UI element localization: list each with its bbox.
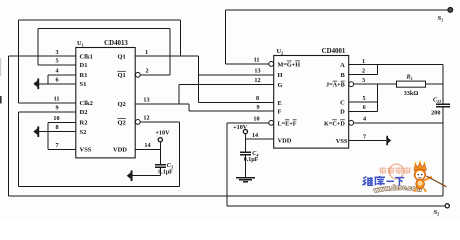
svg-text:12: 12 <box>143 115 149 122</box>
svg-text:J=A+B: J=A+B <box>326 82 345 89</box>
svg-text:4: 4 <box>55 67 58 74</box>
svg-text:G: G <box>278 82 283 89</box>
svg-text:S2: S2 <box>80 129 87 136</box>
svg-text:C: C <box>340 100 345 107</box>
svg-text:Q2: Q2 <box>117 101 125 108</box>
svg-text:5: 5 <box>55 57 58 64</box>
svg-text:0.1µF: 0.1µF <box>158 169 173 175</box>
svg-text:2: 2 <box>145 67 148 74</box>
svg-text:14: 14 <box>144 142 150 149</box>
svg-text:VSS: VSS <box>336 138 348 145</box>
svg-text:6: 6 <box>55 76 58 83</box>
svg-text:F: F <box>278 108 282 115</box>
svg-text:0.1µF: 0.1µF <box>244 157 259 163</box>
svg-text:7: 7 <box>55 142 58 149</box>
svg-text:200: 200 <box>431 110 440 117</box>
svg-text:8: 8 <box>256 95 259 102</box>
svg-text:CD4001: CD4001 <box>322 48 346 55</box>
svg-text:10: 10 <box>253 116 259 123</box>
svg-text:+10V: +10V <box>233 124 248 131</box>
svg-text:1: 1 <box>362 58 365 65</box>
svg-text:D2: D2 <box>80 109 88 116</box>
svg-text:VDD: VDD <box>278 137 292 144</box>
svg-text:VSS: VSS <box>80 147 92 154</box>
svg-text:R1: R1 <box>80 72 88 79</box>
svg-text:10: 10 <box>53 115 59 122</box>
svg-text:12: 12 <box>254 77 260 84</box>
svg-text:13: 13 <box>254 67 260 74</box>
svg-text:E: E <box>278 100 282 107</box>
svg-text:B: B <box>341 72 346 79</box>
svg-text:7: 7 <box>363 133 366 140</box>
svg-text:13: 13 <box>143 96 149 103</box>
svg-text:11: 11 <box>54 95 60 102</box>
svg-text:Q2: Q2 <box>117 119 125 126</box>
svg-text:L=E+F: L=E+F <box>278 120 297 127</box>
svg-text:Clk2: Clk2 <box>80 100 93 107</box>
svg-text:11: 11 <box>254 57 260 64</box>
svg-text:S1: S1 <box>80 81 87 88</box>
svg-text:CD4013: CD4013 <box>104 40 128 47</box>
svg-text:K=C+D: K=C+D <box>324 120 345 127</box>
svg-text:2: 2 <box>362 68 365 75</box>
svg-text:1: 1 <box>145 49 148 56</box>
svg-text:H: H <box>278 72 283 79</box>
svg-text:Q1: Q1 <box>117 72 125 79</box>
svg-text:M=G+H: M=G+H <box>278 61 301 68</box>
svg-text:14: 14 <box>252 132 258 139</box>
svg-text:C22: C22 <box>433 98 441 105</box>
svg-text:Clk1: Clk1 <box>80 54 93 61</box>
svg-text:9: 9 <box>55 104 58 111</box>
svg-text:3: 3 <box>55 49 58 56</box>
svg-text:A: A <box>340 62 345 69</box>
svg-text:5: 5 <box>362 95 365 102</box>
svg-text:D: D <box>340 109 345 116</box>
svg-text:6: 6 <box>363 104 366 111</box>
svg-text:VDD: VDD <box>113 147 127 154</box>
svg-text:3: 3 <box>362 77 365 84</box>
svg-text:4: 4 <box>363 116 366 123</box>
svg-text:9: 9 <box>256 104 259 111</box>
svg-text:33kΩ: 33kΩ <box>404 90 419 97</box>
svg-text:D1: D1 <box>80 62 88 69</box>
svg-text:Q1: Q1 <box>117 54 125 61</box>
svg-text:8: 8 <box>55 124 58 131</box>
svg-text:+10V: +10V <box>155 129 170 136</box>
svg-text:R2: R2 <box>80 120 88 127</box>
